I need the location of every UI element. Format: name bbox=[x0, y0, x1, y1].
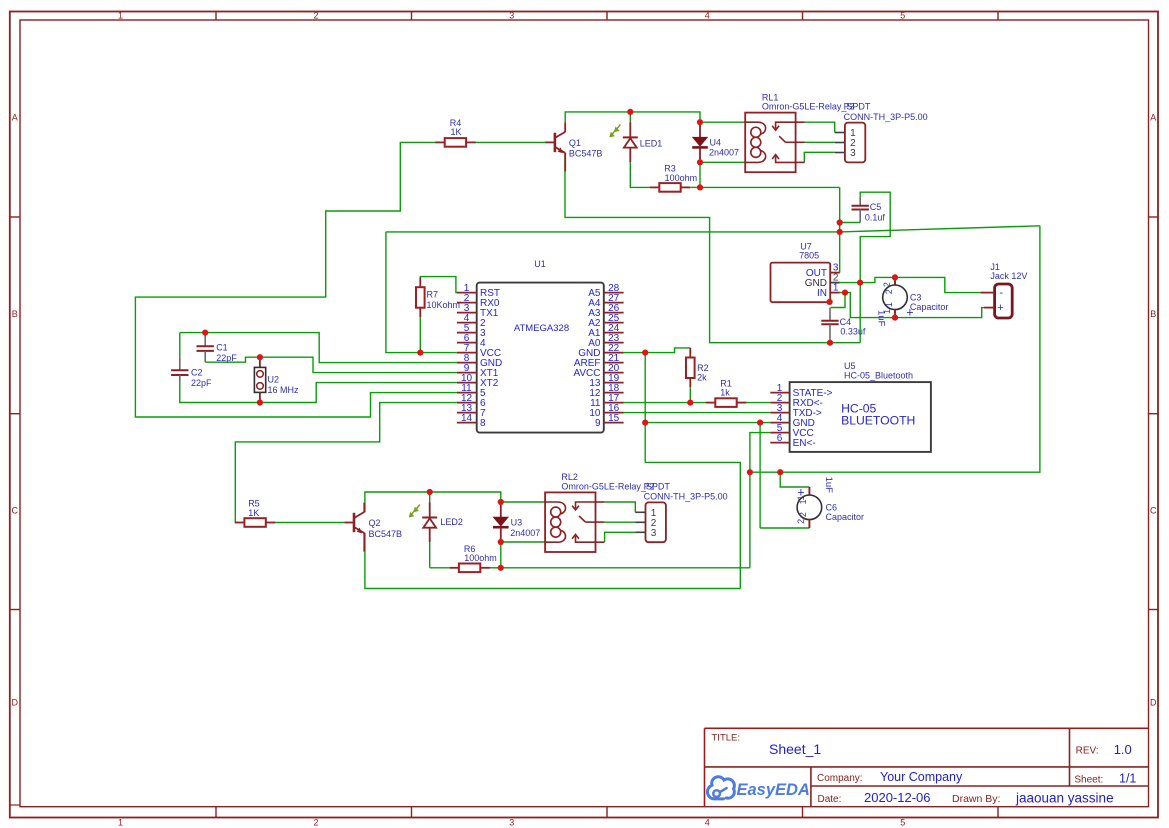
svg-text:LED2: LED2 bbox=[440, 517, 463, 527]
capacitor C3 1uF electrolytic bbox=[876, 277, 914, 326]
svg-text:EN<-: EN<- bbox=[793, 438, 816, 449]
svg-text:jaaouan yassine: jaaouan yassine bbox=[1015, 790, 1114, 805]
junction +5V rail at riser bbox=[837, 229, 843, 235]
module U5 HC-05 Bluetooth bbox=[770, 382, 931, 452]
wire: C5 branch from +5V riser bbox=[840, 222, 861, 224]
junction C5 branch bbox=[837, 219, 843, 225]
junction U3 top bbox=[498, 499, 504, 505]
diode U3 2n4007 bbox=[493, 502, 509, 542]
junction C1 top bbox=[202, 330, 208, 336]
LED LED2 bbox=[409, 492, 438, 542]
resistor R1 bbox=[706, 398, 747, 407]
capacitor C4 bbox=[821, 308, 838, 340]
svg-text:0.1uf: 0.1uf bbox=[865, 212, 886, 222]
svg-text:A: A bbox=[12, 113, 18, 123]
svg-text:5: 5 bbox=[900, 11, 905, 21]
wire: R3 right to U7 OUT riser bbox=[690, 187, 839, 272]
svg-text:0.33uf: 0.33uf bbox=[840, 327, 866, 337]
svg-text:REV:: REV: bbox=[1076, 745, 1099, 756]
svg-text:4: 4 bbox=[705, 11, 710, 21]
svg-text:+: + bbox=[797, 486, 804, 500]
title block bbox=[705, 728, 1149, 806]
ruler row letters left bbox=[11, 113, 18, 708]
wire: Q1 collector to LED1 U4 RL1 coil rail bbox=[565, 112, 745, 132]
svg-text:2n4007: 2n4007 bbox=[709, 148, 739, 158]
svg-text:HC-05_Bluetooth: HC-05_Bluetooth bbox=[844, 370, 913, 380]
junction U4 bottom bbox=[697, 159, 703, 165]
wire: LED1 bottom to R3 left bbox=[630, 162, 649, 187]
Q2 base pin line bbox=[344, 522, 354, 524]
wire: HC-05 GND junction down to C6 bottom bbox=[760, 423, 809, 528]
svg-text:1k: 1k bbox=[720, 388, 730, 398]
svg-text:8: 8 bbox=[480, 418, 486, 429]
svg-text:2: 2 bbox=[313, 11, 318, 21]
EasyEDA logo bbox=[708, 777, 810, 799]
capacitor C5 bbox=[852, 198, 869, 223]
resistor R3 bbox=[650, 183, 691, 192]
svg-text:U3: U3 bbox=[511, 518, 523, 528]
svg-text:22pF: 22pF bbox=[216, 353, 237, 363]
wire: U7 IN to C3 bottom and J1 plus bbox=[845, 293, 984, 318]
svg-text:6: 6 bbox=[777, 433, 783, 444]
svg-text:Sheet_1: Sheet_1 bbox=[769, 741, 821, 757]
svg-text:3: 3 bbox=[651, 528, 657, 539]
wire: C2 bottom to crystal bottom XT2 bbox=[180, 382, 457, 403]
wire: VCC rail to C6 plus bbox=[780, 472, 809, 487]
svg-text:U2: U2 bbox=[268, 374, 280, 384]
wire: U7 IN to C4 top bbox=[831, 293, 845, 308]
svg-text:P2: P2 bbox=[644, 482, 655, 492]
svg-text:D: D bbox=[1150, 698, 1157, 708]
junction R3 right bbox=[697, 184, 703, 190]
junction LED2 top bbox=[427, 489, 433, 495]
junction crystal top bbox=[257, 354, 263, 360]
wire: U1 pin22 GND to R2 top bbox=[624, 348, 691, 353]
svg-text:Your Company: Your Company bbox=[880, 770, 963, 784]
svg-text:CONN-TH_3P-P5.00: CONN-TH_3P-P5.00 bbox=[644, 492, 728, 502]
svg-text:2: 2 bbox=[798, 512, 808, 517]
junction U7 corner bbox=[827, 299, 833, 305]
svg-text:1: 1 bbox=[833, 283, 839, 294]
wire: RL2 contacts to P2 bbox=[605, 502, 636, 542]
wire: R2 bottom to pin17 R1 HC-05 RXD bbox=[624, 388, 771, 403]
connector J1 Jack 12V bbox=[981, 284, 1013, 318]
svg-text:-: - bbox=[999, 287, 1003, 299]
junction LED1 top bbox=[627, 109, 633, 115]
svg-text:LED1: LED1 bbox=[640, 139, 663, 149]
svg-text:1uF: 1uF bbox=[823, 477, 834, 494]
resistor R5 bbox=[235, 518, 276, 527]
svg-text:Drawn By:: Drawn By: bbox=[952, 793, 1000, 805]
junction C4 bottom bbox=[827, 340, 833, 346]
svg-text:EasyEDA: EasyEDA bbox=[737, 781, 810, 799]
diode U4 2n4007 bbox=[692, 122, 708, 162]
svg-text:1K: 1K bbox=[248, 508, 259, 518]
transistor Q2 bbox=[354, 503, 364, 552]
wire C2 top bbox=[179, 333, 181, 358]
wire: C1 bottom to crystal top XT1 bbox=[205, 357, 457, 372]
LED LED1 bbox=[609, 112, 638, 162]
svg-text:Jack 12V: Jack 12V bbox=[990, 271, 1027, 281]
svg-text:BC547B: BC547B bbox=[569, 149, 603, 159]
svg-text:BC547B: BC547B bbox=[369, 529, 403, 539]
junction U3 bottom bbox=[498, 539, 504, 545]
svg-text:1K: 1K bbox=[451, 127, 462, 137]
svg-text:C2: C2 bbox=[191, 367, 203, 377]
svg-text:TITLE:: TITLE: bbox=[712, 733, 741, 744]
svg-text:Sheet:: Sheet: bbox=[1074, 775, 1103, 786]
ruler column numbers top bbox=[118, 11, 905, 21]
svg-text:Date:: Date: bbox=[818, 794, 842, 805]
relay RL2 Omron-G5LE-Relay_SPDT bbox=[545, 492, 604, 552]
svg-text:3: 3 bbox=[509, 11, 514, 21]
svg-text:U1: U1 bbox=[534, 259, 546, 269]
svg-text:C1: C1 bbox=[216, 342, 228, 352]
svg-text:A: A bbox=[1150, 113, 1156, 123]
wire: R7 bottom to VCC rail bbox=[419, 317, 421, 352]
wire: HC-05 VCC down to R6 rail bbox=[750, 433, 770, 568]
IC U1 ATMEGA328 bbox=[457, 259, 624, 433]
wire: C4 bottom stub to GND rail bbox=[829, 339, 831, 342]
svg-text:BLUETOOTH: BLUETOOTH bbox=[841, 414, 915, 428]
svg-text:2: 2 bbox=[884, 289, 894, 294]
svg-text:2n4007: 2n4007 bbox=[510, 528, 540, 538]
wire: U7 GND pin to C3 top and J1 minus bbox=[840, 277, 981, 292]
wire: U1 pin16 to HC-05 TXD bbox=[624, 412, 771, 414]
svg-text:2: 2 bbox=[882, 282, 892, 287]
svg-text:C3: C3 bbox=[910, 293, 922, 303]
capacitor C1 bbox=[197, 333, 214, 363]
svg-text:+: + bbox=[997, 302, 1003, 314]
svg-text:3: 3 bbox=[509, 818, 514, 828]
junction R2 bottom bbox=[687, 400, 693, 406]
svg-text:P3: P3 bbox=[844, 102, 855, 112]
junction U7 IN bbox=[842, 290, 848, 296]
svg-text:1/1: 1/1 bbox=[1119, 772, 1136, 786]
svg-text:5: 5 bbox=[900, 818, 905, 828]
junction HC-05 GND pin bbox=[757, 420, 763, 426]
relay RL1 Omron-G5LE-Relay_SPDT bbox=[745, 113, 804, 173]
svg-text:IN: IN bbox=[817, 288, 827, 299]
wire: GND branch to HC-05 pin4 bbox=[645, 422, 770, 424]
wire: U4 bottom to RL1 coil bottom bbox=[700, 161, 745, 163]
transistor Q1 bbox=[555, 123, 565, 172]
junction R7 bottom on VCC bbox=[417, 350, 423, 356]
wire: base drive net pin11 to R4 to Q1 base bbox=[135, 142, 545, 417]
connector P2 body bbox=[635, 502, 666, 542]
svg-text:Q2: Q2 bbox=[369, 518, 381, 528]
svg-text:3: 3 bbox=[850, 148, 856, 159]
junction C3 top bbox=[892, 274, 898, 280]
ruler row letters right bbox=[1150, 113, 1157, 708]
wire: C5 top wrap to GND riser bbox=[860, 192, 890, 282]
svg-text:1: 1 bbox=[118, 11, 123, 21]
wire: +5V rail U7 OUT to U1 VCC and HC-05 VCC bbox=[386, 226, 1040, 472]
resistor R2 bbox=[686, 348, 695, 388]
wire: base drive net pin12 to R5 to Q2 base bbox=[235, 403, 457, 523]
junction VCC to C6 bbox=[777, 469, 783, 475]
junction pin22 GND bbox=[642, 350, 648, 356]
svg-text:100ohm: 100ohm bbox=[665, 173, 698, 183]
svg-text:ATMEGA328: ATMEGA328 bbox=[514, 323, 569, 334]
resistor R7 bbox=[416, 278, 425, 318]
svg-text:2k: 2k bbox=[697, 373, 707, 383]
Q1 base pin line bbox=[545, 141, 555, 143]
crystal U2 16 MHz bbox=[254, 357, 265, 402]
svg-text:22pF: 22pF bbox=[191, 378, 212, 388]
svg-text:10Kohm: 10Kohm bbox=[427, 300, 461, 310]
regulator U7 7805 bbox=[771, 263, 840, 303]
svg-text:1: 1 bbox=[118, 818, 123, 828]
svg-text:1.0: 1.0 bbox=[1114, 742, 1132, 757]
svg-text:C6: C6 bbox=[826, 503, 838, 513]
wire: U3 bottom junction down to R6 rail bbox=[500, 542, 502, 568]
wire: LED2 bottom to R6 to +5V riser bbox=[430, 542, 750, 568]
svg-text:14: 14 bbox=[461, 413, 473, 424]
svg-text:9: 9 bbox=[595, 418, 601, 429]
wire: GND vertical from pin22 junction down bbox=[645, 353, 740, 589]
junction GND branch bbox=[642, 420, 648, 426]
capacitor C2 bbox=[171, 357, 188, 382]
svg-text:100ohm: 100ohm bbox=[464, 553, 497, 563]
junction U4 top bbox=[697, 119, 703, 125]
svg-text:Capacitor: Capacitor bbox=[826, 512, 865, 522]
wire: R7 top to U1 RST pin1 bbox=[420, 277, 457, 293]
svg-text:U4: U4 bbox=[710, 137, 722, 147]
wire: Q1 emitter to GND rail bbox=[565, 153, 860, 343]
junction U7 GND bbox=[857, 280, 863, 286]
resistor R4 bbox=[435, 138, 476, 147]
svg-text:4: 4 bbox=[705, 818, 710, 828]
connector P3 body bbox=[835, 123, 866, 163]
svg-text:C5: C5 bbox=[870, 202, 882, 212]
svg-text:C: C bbox=[1150, 506, 1157, 516]
svg-text:2: 2 bbox=[796, 519, 806, 524]
ruler column numbers bottom bbox=[118, 818, 905, 828]
title block texts bbox=[712, 733, 1137, 806]
wire: Q2 collector rail to LED2 U3 RL2 coil bbox=[365, 492, 545, 512]
wire: Q2 emitter to GND return bbox=[365, 533, 740, 589]
svg-text:B: B bbox=[1150, 309, 1156, 319]
wire: U3 bottom to RL2 coil bottom bbox=[501, 541, 545, 543]
svg-text:CONN-TH_3P-P5.00: CONN-TH_3P-P5.00 bbox=[844, 112, 928, 122]
svg-text:15: 15 bbox=[608, 413, 620, 424]
svg-text:Capacitor: Capacitor bbox=[910, 302, 949, 312]
svg-text:1uF: 1uF bbox=[876, 310, 887, 327]
wire: RL1 contacts to P3 bbox=[804, 122, 834, 162]
junction R6 right bbox=[498, 565, 504, 571]
svg-text:C: C bbox=[11, 506, 18, 516]
junction C3 bottom bbox=[892, 315, 898, 321]
wire: GND riser rail C1 C2 tops to U1 pin8 bbox=[180, 333, 457, 363]
svg-text:2020-12-06: 2020-12-06 bbox=[864, 790, 931, 805]
svg-text:1: 1 bbox=[884, 302, 894, 307]
svg-text:16 MHz: 16 MHz bbox=[268, 385, 300, 395]
svg-text:Company:: Company: bbox=[817, 773, 863, 784]
wire: U4 bottom junction down to R3 bbox=[699, 162, 701, 187]
junction crystal bottom bbox=[257, 399, 263, 405]
capacitor C6 1uF electrolytic bbox=[796, 477, 834, 528]
resistor R6 bbox=[449, 564, 490, 573]
svg-text:7805: 7805 bbox=[799, 251, 819, 261]
svg-text:Q1: Q1 bbox=[569, 138, 581, 148]
junction VCC rail left bbox=[747, 469, 753, 475]
svg-text:D: D bbox=[11, 698, 18, 708]
svg-text:2: 2 bbox=[313, 818, 318, 828]
svg-text:B: B bbox=[12, 309, 18, 319]
svg-text:R7: R7 bbox=[427, 289, 439, 299]
